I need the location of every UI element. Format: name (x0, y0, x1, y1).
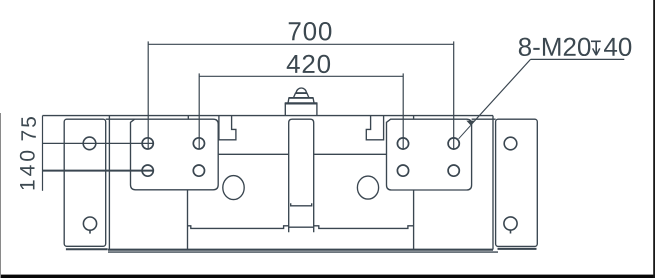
dim text 75 rotated (21, 117, 36, 140)
right end plate (496, 119, 538, 246)
dimension vertical 75 140 (42, 116, 44, 191)
body top edge (43, 115, 494, 117)
dimension line 420 (199, 75, 403, 77)
depth symbol bar (591, 40, 601, 42)
depth symbol arrow left (593, 48, 597, 55)
border right bar (653, 0, 655, 278)
bottom edge lower (108, 251, 498, 253)
depth symbol arrow right (596, 48, 600, 55)
dim text 700 (289, 22, 332, 40)
left end plate base edge (66, 248, 108, 250)
border bottom bar (0, 275, 655, 278)
right end plate hole bottom (504, 217, 517, 230)
leader underline (531, 58, 625, 60)
left pad hole 2 (193, 138, 204, 149)
extension line 700 left (147, 41, 149, 149)
oval slot left (223, 176, 244, 200)
body left edge (108, 116, 110, 250)
depth symbol shaft (595, 41, 597, 55)
screw knob tier3 (293, 93, 309, 98)
slider right edge (413, 190, 415, 249)
screw knob base (285, 103, 317, 115)
left end plate (64, 119, 106, 246)
left jaw pad (131, 119, 219, 190)
slider left nub (187, 116, 189, 120)
left pad hole 4 (193, 165, 204, 176)
leader thin tip (459, 125, 471, 138)
extension line row1 (43, 142, 154, 144)
slider bottom edge left (188, 226, 289, 229)
slider bottom edge right (314, 226, 414, 229)
left end plate hole top (83, 137, 96, 150)
center slot (289, 119, 314, 232)
dim text 420 (287, 55, 330, 73)
left pad hole 1 (142, 138, 153, 149)
oval slot right (357, 176, 378, 199)
leader line (471, 59, 531, 125)
right pad hole 2 (448, 138, 459, 149)
left pad hole 3 (142, 165, 153, 176)
screw knob tier2 (288, 98, 314, 104)
step detail right of left pad (219, 116, 236, 140)
leader arrowhead (466, 121, 475, 126)
extension line row2 (43, 170, 154, 172)
left end plate hole stub (89, 230, 91, 233)
right jaw pad (387, 119, 472, 190)
border left hairline (0, 113, 1, 278)
slider right nub (413, 116, 415, 120)
right end plate hole stub (510, 230, 512, 233)
guide mid line left (218, 153, 289, 155)
guide mid line right (314, 153, 387, 155)
slot inner edge (291, 203, 312, 206)
dim text 140 rotated (20, 151, 35, 190)
base plate top edge left segment (106, 118, 135, 120)
extension line 420 right (402, 73, 404, 149)
screw knob tier2 top edge (289, 97, 313, 99)
extension line 420 left (198, 73, 200, 149)
slider bottom edge mid (289, 226, 314, 228)
screw knob dome (296, 88, 306, 93)
slider left edge (187, 190, 189, 249)
screw knob tier3 top edge (296, 92, 307, 94)
note text 40 (604, 38, 631, 56)
bottom edge main (108, 249, 493, 251)
right end plate hole top (504, 137, 517, 150)
base plate top edge right segment (472, 118, 496, 120)
step detail left of right pad (366, 116, 383, 140)
screw knob base top thick edge (285, 102, 318, 104)
extension line 700 right (453, 41, 455, 149)
left end plate hole bottom (83, 217, 96, 230)
note text 8-M20 (519, 38, 591, 56)
right end plate base edge (498, 248, 537, 250)
body right edge (492, 116, 494, 250)
right pad hole 1 (397, 138, 408, 149)
right pad hole 4 (448, 165, 459, 176)
right pad hole 3 (397, 165, 408, 176)
dimension line 700 (148, 43, 454, 45)
